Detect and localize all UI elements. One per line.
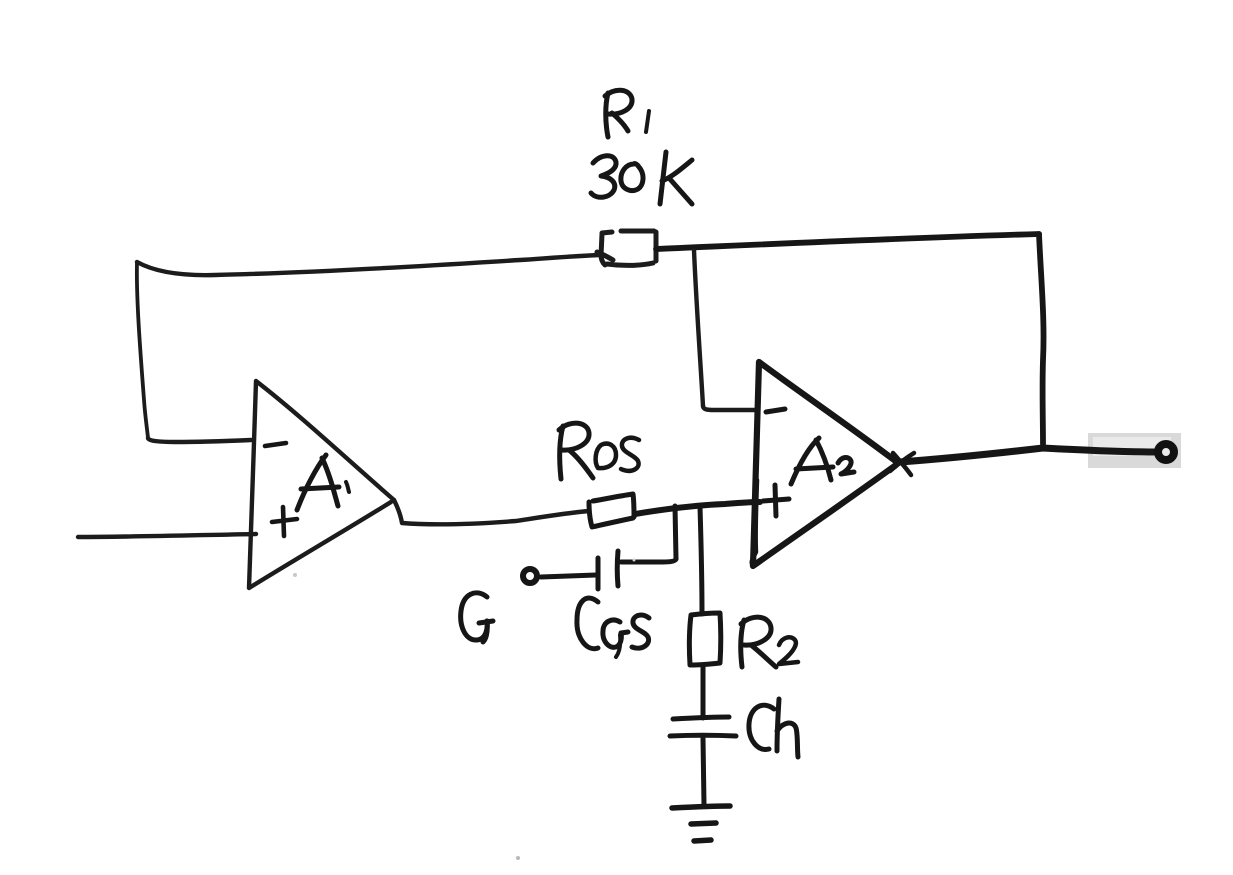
wire CGS branch vertical — [675, 506, 676, 559]
wire right feedback vertical — [1039, 234, 1044, 444]
A2 apex tick marks — [890, 453, 914, 475]
minus sign of A2 — [766, 409, 785, 412]
resistor R2 — [689, 613, 720, 665]
wire top horizontal right segment — [656, 234, 1039, 249]
label A1 — [297, 455, 349, 510]
paper speck — [293, 573, 297, 577]
resistor RDS — [589, 494, 634, 527]
minus sign of A1 — [265, 443, 286, 446]
ground — [672, 806, 730, 841]
output terminal — [1158, 444, 1174, 460]
label 30K (value of R1) — [591, 152, 692, 204]
label R1 — [605, 90, 649, 137]
wire top horizontal left segment — [137, 255, 599, 275]
wire CGS branch jog — [621, 559, 676, 562]
wire R2 branch vertical — [700, 507, 702, 614]
wire A2 output — [900, 448, 1155, 462]
wire R2 to Ch — [701, 665, 706, 718]
capacitor Ch — [670, 717, 736, 736]
plus sign of A1 — [272, 507, 297, 536]
smudge near output terminal — [1088, 433, 1181, 468]
wire A1 output — [394, 500, 589, 524]
paper speck — [633, 559, 636, 562]
label A2 — [791, 438, 854, 484]
wire A2 inverting jog — [703, 406, 758, 410]
label R2 — [741, 617, 798, 667]
label RDS — [559, 423, 639, 479]
terminal G — [523, 569, 537, 583]
wire input to A1 plus — [78, 534, 256, 537]
wire left feedback vertical — [137, 262, 148, 438]
wire A1 inverting input — [148, 438, 251, 442]
op-amp A2 — [753, 362, 898, 566]
label CGS — [577, 598, 649, 657]
resistor R1 — [597, 231, 656, 265]
label G — [461, 593, 493, 642]
plus sign of A2 — [763, 485, 789, 516]
paper speck — [516, 856, 520, 860]
op-amp A2 doubled left edge and bottom hook — [752, 480, 760, 566]
label Ch — [749, 699, 798, 757]
op-amp A1 — [249, 381, 394, 588]
wire RDS to A2 plus input — [635, 502, 760, 514]
capacitor CGS — [598, 551, 618, 589]
wire G lead — [541, 575, 596, 577]
wire A2 inverting branch vertical — [694, 250, 703, 406]
wire Ch to ground — [703, 738, 704, 805]
